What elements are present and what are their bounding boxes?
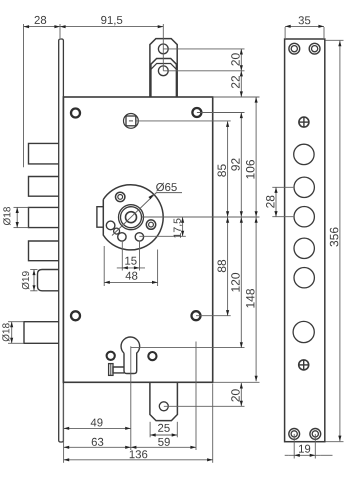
body screw hole top-right: [192, 108, 201, 117]
extension line body left edge bottom: [63, 384, 65, 463]
dimension 19 faceplate screws: [289, 454, 321, 456]
dimension 28 faceplate holes: [275, 187, 277, 216]
dimension 356 faceplate length: [339, 41, 341, 442]
lower deadbolt (Ø18): [24, 322, 59, 344]
handle spindle square hole: [123, 114, 138, 129]
faceplate bolt hole 2: [294, 177, 314, 197]
dimension 59 keyhole to screw: [131, 446, 196, 448]
cylinder hub outer ring: [119, 205, 144, 230]
dimension 22 bracket hole to body: [240, 71, 242, 97]
extension line rose bottom holes: [139, 235, 185, 237]
top fixing bracket outer plate: [150, 39, 177, 97]
extension line latchbolt bottom: [30, 290, 37, 292]
extension line faceplate hole c2: [272, 186, 293, 188]
euro cylinder profile: [121, 337, 140, 373]
extension line lower deadbolt bottom: [8, 342, 24, 344]
faceplate bottom screw hole left: [289, 429, 300, 440]
dimension 35 faceplate width: [285, 25, 324, 27]
faceplate cross screw upper: [299, 117, 309, 127]
extension line faceplate-edge top: [59, 24, 61, 38]
bottom bracket hole: [159, 402, 168, 411]
cylinder fixing hole right: [148, 352, 156, 360]
body screw hole top-left: [71, 109, 80, 118]
cylinder rose left lug: [97, 207, 103, 228]
cylinder fixing hole left: [107, 352, 115, 360]
extension line faceplate top dim 35 right: [323, 27, 325, 38]
extension line body top edge: [213, 96, 260, 98]
cylinder rose plate Ø65: [103, 185, 163, 250]
extension line bottom bracket hole: [164, 405, 245, 407]
cylinder hub middle ring: [121, 207, 142, 228]
dimension 106 body top to cylinder: [255, 97, 257, 217]
extension line spindle center: [136, 120, 231, 122]
extension line deadbolt3 top: [14, 206, 29, 208]
extension line bottom-right screw hole: [196, 315, 231, 317]
lock body main plate: [63, 97, 212, 382]
extension line bolt tip vertical: [23, 24, 25, 167]
faceplate cross screw lower: [299, 360, 309, 370]
extension line lower deadbolt top: [8, 321, 24, 323]
small pin hole 1: [106, 221, 115, 230]
dimension Ø19 latch bolt: [33, 270, 35, 291]
faceplate bottom screw hole right: [310, 429, 321, 440]
rose bottom hole right: [135, 233, 143, 241]
extension line bottom bracket left corner: [149, 422, 151, 438]
extension line top bracket centerline: [162, 24, 164, 71]
extension line latchbolt top: [30, 269, 37, 271]
dimension 25 bottom bracket width: [150, 434, 177, 436]
extension line faceplate top dim 35 left: [284, 27, 286, 38]
faceplate front view: [285, 39, 325, 442]
rose bottom hole left: [118, 233, 126, 241]
extension line keyhole center horizontal: [131, 347, 245, 349]
cylinder hub bore: [126, 212, 137, 223]
extension line top bracket hole lower: [163, 70, 244, 72]
dimension 148 cylinder to body bottom: [255, 217, 257, 381]
rose screw hole right: [146, 220, 155, 229]
cylinder cam arm: [113, 367, 124, 373]
extension line cylinder center: [142, 216, 260, 218]
faceplate bolt hole 1: [294, 144, 314, 164]
faceplate bolt hole 4: [294, 238, 314, 258]
extension line faceplate bottom screw left: [293, 434, 295, 459]
extension line faceplate top to 356: [326, 39, 344, 41]
deadbolt 1: [29, 143, 59, 164]
dimension 136 body width: [64, 459, 213, 461]
dimension Ø18 deadbolt 3: [16, 207, 18, 227]
dimension 17,5 cylinder to rose holes: [182, 217, 184, 236]
dimension 120 cylinder to keyhole: [240, 217, 242, 348]
extension line faceplate bottom screw right: [314, 434, 316, 459]
small pin hole 2: [114, 228, 120, 234]
lock faceplate edge (side view, left): [59, 39, 64, 442]
dimension 49 body edge to keyhole upper: [64, 427, 131, 429]
top bracket inner plate fold line: [151, 64, 177, 70]
extension line body bottom edge: [213, 381, 260, 383]
dimension 63 body edge to keyhole: [64, 446, 131, 448]
body screw hole bottom-right: [192, 311, 201, 320]
top fixing bracket inner plate: [151, 59, 177, 97]
dimension 92 screw to cylinder: [240, 113, 242, 217]
dimension 85 spindle to cylinder: [227, 121, 229, 217]
dimension Ø18 lower deadbolt: [11, 322, 13, 344]
body screw hole bottom-left: [71, 311, 80, 320]
dimension 15 rose holes: [117, 267, 145, 269]
extension line 48 right: [157, 250, 159, 287]
extension line faceplate bottom to 356: [326, 441, 344, 443]
faceplate bolt hole 3: [294, 207, 314, 227]
dimension 91,5 bracket offset: [60, 26, 163, 28]
extension line top bracket hole upper: [163, 48, 244, 50]
extension line body right edge bottom: [212, 384, 214, 463]
extension line keyhole centerline vertical: [130, 346, 132, 450]
extension line top-right screw hole: [197, 112, 245, 114]
top bracket hole upper: [158, 44, 168, 54]
faceplate bolt hole 5: [294, 268, 314, 288]
faceplate latch hole: [293, 321, 314, 342]
faceplate top screw hole right: [309, 43, 320, 54]
cylinder cam end cap: [109, 364, 113, 376]
dimension 88 cylinder to screw: [227, 217, 229, 316]
bottom fixing bracket: [150, 382, 178, 420]
latch bolt (Ø19, rounded): [38, 270, 59, 291]
dimension 48 rose span: [104, 281, 157, 283]
deadbolt 4: [29, 241, 59, 261]
extension line rose hole left down: [121, 241, 123, 271]
dimension 28 bolt protrusion: [24, 26, 61, 28]
top bracket hole lower: [158, 66, 168, 76]
dimension 20 bracket holes: [240, 49, 242, 71]
faceplate top screw hole left: [289, 43, 300, 54]
extension line deadbolt3 bottom: [14, 227, 29, 229]
extension line rose hole right down: [139, 241, 141, 271]
deadbolt 2: [29, 177, 59, 197]
extension line faceplate hole c3: [272, 216, 293, 218]
extension line screw hole to 59 dim: [195, 342, 197, 451]
dimension 20 bottom bracket hole: [240, 383, 242, 406]
deadbolt 3 (Ø18): [29, 207, 59, 227]
leader Ø65 rose diameter: [112, 193, 156, 236]
extension line bottom bracket right corner: [176, 422, 178, 438]
extension line 48 left: [103, 246, 105, 286]
rose screw hole upper: [116, 192, 125, 201]
